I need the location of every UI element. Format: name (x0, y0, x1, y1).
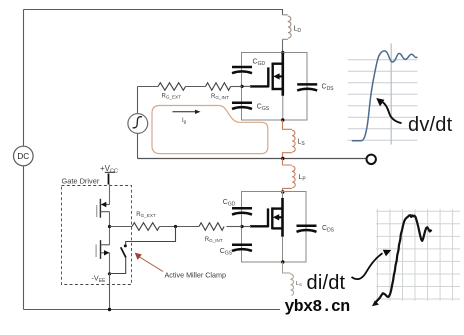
wire: bottom rail (24, 309, 284, 311)
svg-text:di/dt: di/dt (307, 272, 346, 294)
svg-text:RG_INT: RG_INT (205, 237, 223, 243)
wire: top gate lead thin part (242, 85, 251, 87)
wire: bottom MOSFET drain thin to box top (282, 192, 284, 198)
wire: top MOSFET source to box bottom (282, 96, 284, 120)
node: driver output (108, 225, 111, 228)
inductor LP (salmon) (283, 159, 296, 193)
resistor RG_INT (top) (206, 83, 231, 91)
svg-text:-VEE: -VEE (92, 274, 107, 284)
wire: bottom gate lead thin part (242, 226, 251, 228)
svg-text:Gate Driver: Gate Driver (62, 177, 100, 186)
node: output junction (281, 157, 284, 160)
wire: driver rail mid (109, 212, 111, 245)
wire: pulse source bottom to return line (137, 133, 139, 158)
node: bottom box drain junction (281, 190, 284, 193)
wire: clamp branch down/left (126, 227, 176, 245)
capacitor CGD (top) (232, 67, 252, 73)
voltage source DC (13, 146, 33, 166)
svg-text:LD: LD (294, 26, 302, 35)
capacitor CGD (bottom) (232, 208, 252, 214)
wire: bottom MOSFET source thin to box bottom (282, 237, 284, 262)
svg-text:LP: LP (299, 174, 307, 183)
wire RG_INT to bottom box (227, 226, 243, 228)
gate driver dashed box (62, 186, 132, 285)
wire between bottom resistors (160, 226, 200, 228)
resistor RG_INT (bottom) (199, 223, 224, 231)
wire: source/output return line with terminal (138, 158, 367, 160)
transistor Q1 (driver PMOS) (97, 199, 110, 218)
wire between top resistors (186, 86, 206, 88)
transistor M1 (top MOSFET) (250, 53, 283, 96)
svg-text:CGD: CGD (223, 199, 236, 208)
wire: +VCC stub (108, 174, 110, 185)
capacitor CGS (bottom) (232, 245, 252, 251)
watermark ybx8.cn (280, 296, 353, 316)
node: -VEE junction (108, 272, 111, 275)
svg-text:CGS: CGS (220, 248, 233, 257)
node: bottom gate junction (240, 225, 243, 228)
wire: gate wire from pulse source to resistors (138, 86, 159, 88)
wire: driver output to RG_EXT (110, 226, 133, 228)
inductor LS (bottom) (283, 262, 294, 307)
capacitor CGS (top) (232, 103, 252, 109)
svg-text:ybx8.cn: ybx8.cn (285, 297, 350, 316)
annotation arrow di/dt (352, 253, 383, 279)
svg-text:DC: DC (17, 152, 29, 161)
switch: active miller clamp (124, 244, 127, 247)
curve: dv/dt waveform (blue) (352, 51, 418, 141)
svg-text:LS: LS (296, 281, 302, 287)
node: clamp tap (174, 225, 177, 228)
svg-text:RG_INT: RG_INT (211, 94, 229, 100)
dv/dt plot grid (348, 60, 418, 141)
annotation arrow dv/dt (383, 102, 402, 123)
svg-text:CDS: CDS (322, 84, 335, 93)
svg-text:+VCC: +VCC (100, 164, 118, 175)
transistor M2 (bottom MOSFET) (250, 198, 283, 237)
curve: di/dt waveform (black) (375, 215, 432, 303)
svg-text:CGD: CGD (253, 59, 266, 68)
svg-text:LS: LS (298, 139, 306, 148)
capacitor CDS (top) (297, 84, 317, 90)
node: bottom source junction at box bottom (281, 260, 284, 263)
wire: -VEE down to bottom rail (109, 274, 111, 310)
svg-text:RG_EXT: RG_EXT (136, 212, 156, 218)
capacitor CDS (bottom) (297, 226, 317, 232)
arrow Ig (173, 111, 197, 113)
wire: top rail from DC+ to Ld (24, 10, 283, 15)
wire: DC source top lead (23, 10, 25, 147)
pulse source V1 (137, 87, 139, 114)
wire: driver rail low to -VEE junction (109, 253, 111, 274)
wire: DC source bottom lead (23, 166, 25, 310)
di/dt plot grid (376, 209, 460, 301)
inductor Ld (283, 15, 292, 40)
wire from RG_INT to box (231, 86, 243, 88)
node: top box drain junction (281, 51, 284, 54)
current loop Ig (tan) (152, 106, 268, 154)
node: top source junction at box bottom (281, 118, 284, 121)
svg-text:dv/dt: dv/dt (408, 114, 453, 136)
svg-text:CGS: CGS (257, 104, 270, 113)
resistor RG_EXT (driver) (132, 223, 160, 231)
resistor RG_EXT (top) (158, 83, 186, 91)
node: gate/caps junction top (240, 85, 243, 88)
terminal: output node circle (367, 155, 376, 164)
svg-text:Active Miller Clamp: Active Miller Clamp (165, 271, 227, 280)
transistor Q2 (driver NMOS) (96, 240, 110, 259)
inductor LS (top, salmon) (283, 120, 296, 158)
wire: top MOSFET cell box (242, 53, 308, 121)
node: bottom rail junction (108, 308, 111, 311)
svg-text:Ig: Ig (182, 118, 187, 124)
svg-text:CDS: CDS (322, 225, 335, 234)
svg-text:RG_EXT: RG_EXT (162, 94, 182, 100)
wire: bottom MOSFET cell box (242, 192, 307, 263)
